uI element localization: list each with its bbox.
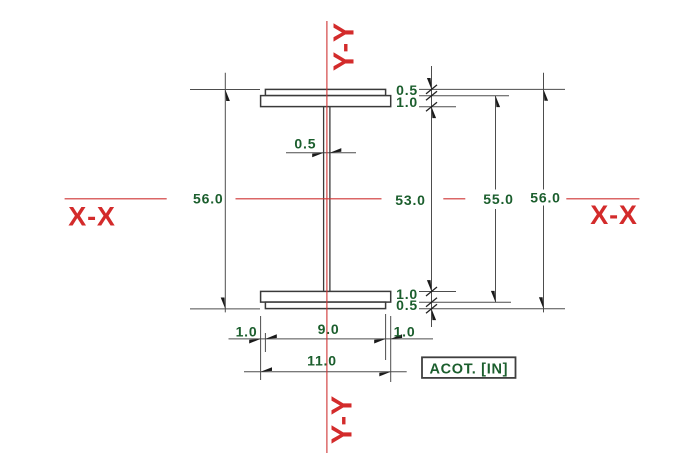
dim right stack: extension line y=95.7	[419, 95, 509, 97]
red centerlines	[65, 21, 640, 453]
dim right stack: extension line y=302.2	[419, 301, 511, 303]
X-X centerline segment far left	[65, 198, 167, 200]
dim right stack: extension line y=89.4 (beam top)	[419, 88, 565, 90]
arrowheads	[221, 78, 548, 376]
svg-text:9.0: 9.0	[318, 321, 340, 337]
arrow left dim 0.5 web right	[330, 148, 341, 153]
dim 55.0: dimension line upper segment	[495, 96, 497, 190]
green dimension texts	[193, 82, 561, 369]
dim right stack: extension line y=308.7 (beam bottom)	[419, 308, 565, 310]
svg-text:Y-Y: Y-Y	[329, 22, 361, 71]
tick at y=106.7	[426, 102, 437, 111]
dim 11.0 row: extension line x=390.7	[390, 316, 392, 382]
arrow left dim 1.0 bottom-right outer	[391, 334, 402, 339]
dim 9.0 row: extension line x=265.4	[264, 333, 266, 352]
arrow up dim 53.0 top	[432, 107, 437, 118]
beam top flange	[261, 96, 391, 107]
dim 9.0 row: extension line x=385.6	[385, 314, 387, 360]
ACOT units box	[422, 357, 516, 378]
tick at y=95.7	[426, 91, 437, 100]
tick at y=291.5	[426, 287, 437, 296]
arrow down dim 56.0 left bottom	[221, 298, 226, 309]
svg-text:X-X: X-X	[68, 202, 115, 232]
svg-text:11.0: 11.0	[307, 353, 337, 369]
arrow left dim 11.0 left	[261, 367, 272, 372]
Y-Y vertical centerline	[326, 21, 328, 453]
arrow down right stack top	[427, 78, 432, 89]
svg-text:1.0: 1.0	[236, 324, 258, 340]
tick at y=89.4	[426, 85, 437, 94]
beam web left line	[323, 107, 325, 292]
arrow up right stack bottom	[432, 309, 437, 320]
arrow right dim 0.5 web left	[312, 153, 323, 158]
svg-text:1.0: 1.0	[396, 94, 418, 110]
svg-text:53.0: 53.0	[395, 192, 425, 208]
arrow right dim 11.0 right	[379, 372, 390, 377]
beam top cover plate	[265, 89, 385, 95]
dim 53.0: dimension line	[431, 66, 433, 327]
dim 56.0 left: dimension line	[224, 73, 226, 313]
dim 56.0 left: extension line top	[190, 89, 260, 91]
dim 56.0 left: extension line bottom	[190, 308, 260, 310]
svg-text:0.5: 0.5	[294, 136, 316, 152]
dim right stack: extension line y=291.5	[419, 291, 456, 293]
svg-text:56.0: 56.0	[193, 190, 223, 206]
svg-text:55.0: 55.0	[483, 191, 513, 207]
arrow right dim 1.0 bottom-left outer	[249, 339, 260, 344]
oblique tick marks on right stack	[426, 85, 437, 313]
X-X centerline segment through beam	[236, 198, 382, 200]
beam cross-section outline	[261, 89, 391, 308]
arrow down dim 56.0 right bottom	[539, 297, 544, 308]
dim 11.0: dimension line	[244, 371, 407, 373]
dim right stack: extension line y=106.7	[419, 106, 456, 108]
arrow left dim 9.0 left	[265, 334, 276, 339]
svg-text:X-X: X-X	[590, 200, 637, 230]
dim 9.0/1.0 row: extension line x=260.6	[260, 316, 262, 380]
arrow down dim 53.0 bottom	[427, 280, 432, 291]
dim 9.0/1.0/1.0: dimension line	[229, 338, 434, 340]
dim 55.0: dimension line lower segment	[495, 209, 497, 302]
arrow up dim 56.0 left top	[225, 90, 230, 101]
svg-text:0.5: 0.5	[396, 297, 418, 313]
dim 56.0 right: dimension line upper segment	[543, 73, 545, 190]
svg-text:Y-Y: Y-Y	[327, 395, 359, 444]
X-X centerline segment far right	[566, 198, 639, 200]
beam bottom flange	[261, 291, 391, 302]
dim 56.0 right: dimension line lower segment	[543, 206, 545, 313]
tick at y=302.2	[426, 298, 437, 307]
arrow up dim 55.0 top	[496, 96, 501, 107]
X-X centerline segment mid right	[443, 198, 465, 200]
arrow down dim 55.0 bottom	[491, 291, 496, 302]
svg-text:56.0: 56.0	[530, 190, 560, 206]
arrow up dim 56.0 right top	[544, 89, 549, 100]
svg-text:ACOT. [IN]: ACOT. [IN]	[429, 362, 508, 378]
beam bottom cover plate	[265, 302, 385, 309]
arrow right dim 9.0 right	[374, 339, 385, 344]
svg-text:1.0: 1.0	[394, 324, 416, 340]
tick at y=308.7	[426, 304, 437, 313]
beam web right line	[329, 107, 331, 292]
dim 0.5 web: dimension line	[286, 152, 356, 154]
red axis labels	[68, 22, 637, 444]
